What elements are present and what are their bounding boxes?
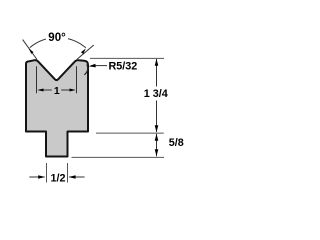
svg-text:R5/32: R5/32 (109, 61, 138, 73)
1 3/4 dimension line upper segment (156, 59, 158, 87)
1/2 left arrowhead (pointing right) (38, 175, 45, 179)
1 3/4 top extension line (90, 57, 164, 59)
die block body (V-die cross section) (26, 60, 88, 156)
1 3/4 dimension line lower segment (156, 101, 158, 133)
svg-text:5/8: 5/8 (169, 137, 184, 149)
1 inch dimension line left segment (39, 89, 52, 91)
1 inch dimension line right segment (61, 89, 74, 91)
1 3/4 top arrowhead (155, 59, 159, 66)
5/8 top arrowhead (155, 134, 159, 141)
svg-text:1: 1 (54, 85, 60, 97)
1/2 left extension line (46, 163, 48, 183)
1/2 right arrowhead (pointing left) (69, 175, 76, 179)
svg-text:1/2: 1/2 (50, 173, 65, 185)
1/2 right extension line (67, 163, 69, 183)
left flank extension line (angle dimension) (23, 40, 37, 60)
5/8 dimension line (156, 134, 158, 156)
svg-text:1 3/4: 1 3/4 (144, 88, 168, 100)
R5/32 leader line (91, 65, 107, 67)
1 inch dimension right extension line (76, 66, 78, 93)
right flank extension line (angle dimension) (77, 45, 94, 59)
5/8 bottom arrowhead (155, 149, 159, 156)
radius arc detail at right shoulder (R5/32) (84, 65, 87, 75)
1 inch left arrowhead (37, 89, 43, 92)
1 3/4 bottom arrowhead (155, 125, 159, 132)
svg-text:90°: 90° (48, 32, 66, 44)
1/2 dimension line left segment (29, 176, 44, 178)
R5/32 leader arrowhead (88, 64, 95, 68)
5/8 bottom extension line (stem bottom) (72, 156, 165, 158)
angle arc right arrowhead (81, 48, 87, 54)
angle arc left arrowhead (28, 48, 34, 54)
1 inch right arrowhead (70, 89, 76, 92)
1 3/4 bottom extension line (96, 132, 164, 134)
90 degree text background (46, 30, 68, 43)
1 inch dimension left extension line (36, 66, 38, 93)
angle dimension arc (30, 37, 86, 47)
1/2 dimension line right segment (69, 176, 84, 178)
